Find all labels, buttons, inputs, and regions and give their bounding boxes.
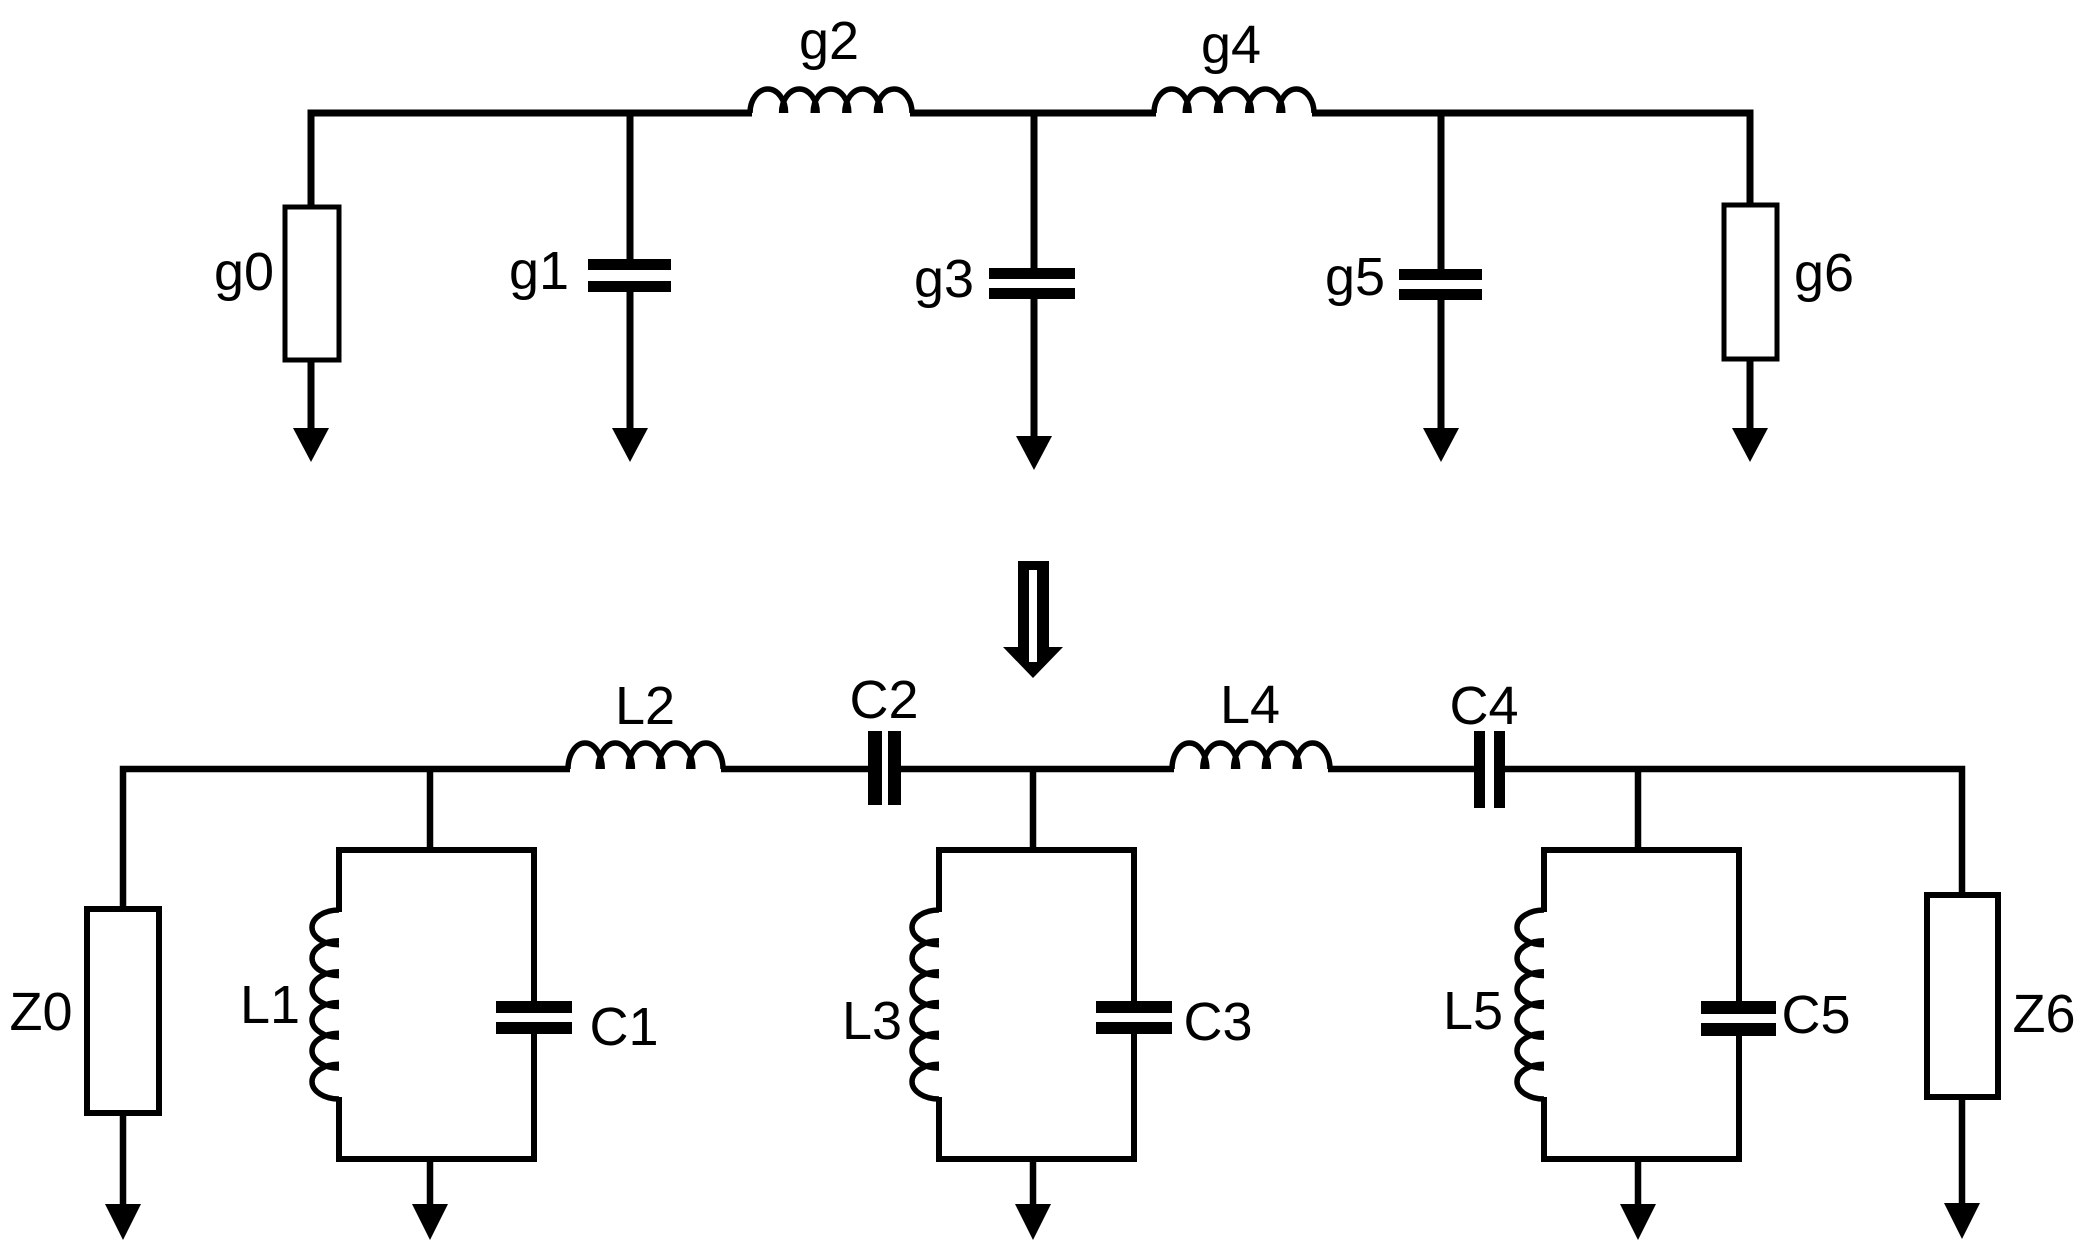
inductor g4 — [1154, 89, 1314, 113]
tank L5C5 frame — [1544, 850, 1739, 1159]
svg-text:L2: L2 — [615, 676, 675, 736]
svg-text:g2: g2 — [799, 11, 859, 71]
wire top bus right segment with corner down to g6 — [1312, 113, 1750, 207]
svg-text:C3: C3 — [1183, 992, 1252, 1052]
inductor L2 — [568, 743, 723, 769]
wire bottom bus left segment with corner down to Z0 — [123, 769, 570, 909]
svg-text:L1: L1 — [240, 975, 300, 1035]
capacitor C2 — [868, 731, 882, 805]
wire shunt drop to g5 — [1438, 113, 1445, 271]
ground arrow g0 — [308, 360, 315, 433]
inductor L5 — [1517, 910, 1544, 1099]
svg-text:Z0: Z0 — [9, 982, 72, 1042]
svg-text:L3: L3 — [842, 991, 902, 1051]
ground arrow Z6 — [1959, 1097, 1966, 1206]
svg-text:C4: C4 — [1449, 676, 1518, 736]
capacitor g1 — [588, 259, 671, 270]
capacitor C3 — [1096, 1001, 1172, 1013]
inductor g2 — [750, 89, 912, 113]
wire shunt drop to g3 — [1031, 113, 1038, 270]
wire top bus middle segment between g2 and g4 — [910, 110, 1156, 117]
wire bottom bus segment C2 to L4 — [901, 766, 1174, 773]
resistor g6 — [1724, 205, 1777, 359]
resistor Z6 — [1927, 895, 1998, 1097]
svg-text:L4: L4 — [1220, 675, 1280, 735]
wire tap to tank L5C5 — [1635, 769, 1642, 853]
svg-text:g4: g4 — [1201, 15, 1261, 75]
wire bottom bus segment L4 to C4 — [1328, 766, 1474, 773]
svg-text:C1: C1 — [589, 997, 658, 1057]
svg-text:C5: C5 — [1781, 985, 1850, 1045]
wire tap to tank L1C1 — [427, 769, 434, 853]
svg-text:g0: g0 — [214, 242, 274, 302]
ground arrow Z0 — [120, 1113, 127, 1208]
inductor L3 — [912, 910, 939, 1099]
inductor L1 — [312, 910, 339, 1099]
capacitor C4 — [1474, 731, 1485, 808]
wire shunt drop to g1 — [627, 113, 634, 261]
tank L3C3 frame — [939, 850, 1134, 1159]
transformation double arrow — [1003, 561, 1063, 678]
wire tap to tank L3C3 — [1030, 769, 1037, 853]
ground arrow tank L1C1 — [427, 1159, 434, 1207]
svg-text:g6: g6 — [1794, 243, 1854, 303]
svg-text:g1: g1 — [509, 241, 569, 301]
svg-text:L5: L5 — [1443, 981, 1503, 1041]
tank L1C1 frame — [339, 850, 534, 1159]
ground arrow tank L3C3 — [1030, 1159, 1037, 1207]
capacitor C1 — [496, 1001, 572, 1013]
ground arrow g5 — [1438, 300, 1445, 433]
wire bottom bus right segment with corner down to Z6 — [1505, 769, 1962, 895]
capacitor g3 — [989, 268, 1075, 279]
ground arrow g3 — [1031, 299, 1038, 441]
wire bottom bus segment L2 to C2 — [721, 766, 868, 773]
capacitor g5 — [1399, 269, 1482, 280]
capacitor C5 — [1701, 1001, 1776, 1014]
svg-text:g5: g5 — [1325, 247, 1385, 307]
inductor L4 — [1172, 743, 1330, 769]
ground arrow g1 — [627, 292, 634, 433]
ground arrow g6 — [1747, 359, 1754, 433]
resistor g0 — [285, 207, 339, 360]
resistor Z0 — [87, 909, 159, 1113]
wire top bus left segment with corner down to g0 — [311, 113, 752, 209]
svg-text:g3: g3 — [914, 249, 974, 309]
ground arrow tank L5C5 — [1635, 1159, 1642, 1207]
svg-text:Z6: Z6 — [2012, 984, 2075, 1044]
svg-text:C2: C2 — [849, 670, 918, 730]
